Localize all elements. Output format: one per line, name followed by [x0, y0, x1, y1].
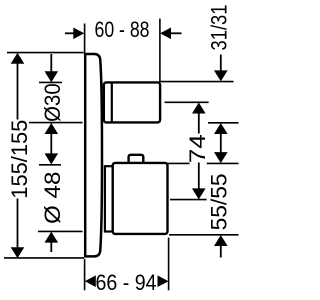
svg-text:74: 74 [185, 134, 210, 163]
upper handle sleeve + knob body [104, 82, 160, 122]
dim 66-94 left arrow [85, 275, 96, 287]
svg-text:66 - 94: 66 - 94 [96, 270, 157, 295]
svg-text:31/31: 31/31 [207, 5, 232, 51]
dim Ø48 bottom arrow [45, 232, 59, 243]
svg-text:60 - 88: 60 - 88 [95, 17, 150, 42]
extension line: plate bottom (155 ref) [4, 257, 84, 259]
dim gap double arrow (right) [214, 123, 228, 134]
extension line: bottom-left (wall plane) [84, 259, 86, 291]
dim 55/55 bottom arrow [214, 235, 228, 246]
ext line: lower knob top (right) [168, 162, 190, 164]
lower knob body [113, 163, 168, 234]
dim 66-94 right arrow [158, 275, 169, 287]
ext line: lower knob centre (right) [170, 199, 207, 201]
tick: upper knob bottom (left) [29, 122, 83, 124]
ext line: upper knob bottom (right) [208, 122, 239, 124]
extension line: top-right (upper knob face) [159, 19, 161, 83]
upper knob divider line [111, 82, 113, 122]
tick: lower knob top (left) [39, 164, 61, 166]
lower handle sleeve [105, 166, 113, 231]
tick: lower knob bottom (left) [38, 230, 83, 232]
dim 60-88 right arrow [171, 32, 182, 34]
ext line: lower knob bottom (right) [169, 234, 239, 236]
extension line: top-left (wall plane) [84, 24, 86, 55]
tick: upper knob top (left) [39, 81, 62, 83]
dim Ø30 top arrow [50, 54, 52, 72]
extension line: plate top (155 ref) [7, 52, 84, 54]
dim Ø30/Ø48 double arrow [45, 123, 59, 134]
lower knob safety tab [129, 155, 144, 167]
ext line: upper knob top (right) [160, 81, 233, 83]
svg-text:Ø30: Ø30 [40, 83, 65, 122]
ext line: upper knob centre (right) [165, 101, 209, 103]
dim 74 arrows [192, 103, 206, 114]
extension line: bottom-right (lower knob face) [168, 238, 170, 291]
dim 155/155 line with arrows [11, 53, 25, 64]
escutcheon plate (side view) [85, 54, 102, 256]
dim 31/31 arrow [220, 55, 222, 72]
svg-text:155/155: 155/155 [7, 120, 32, 199]
svg-text:Ø 48: Ø 48 [40, 172, 65, 225]
svg-text:55/55: 55/55 [207, 173, 232, 230]
dim 60-88 left arrow [65, 32, 74, 34]
